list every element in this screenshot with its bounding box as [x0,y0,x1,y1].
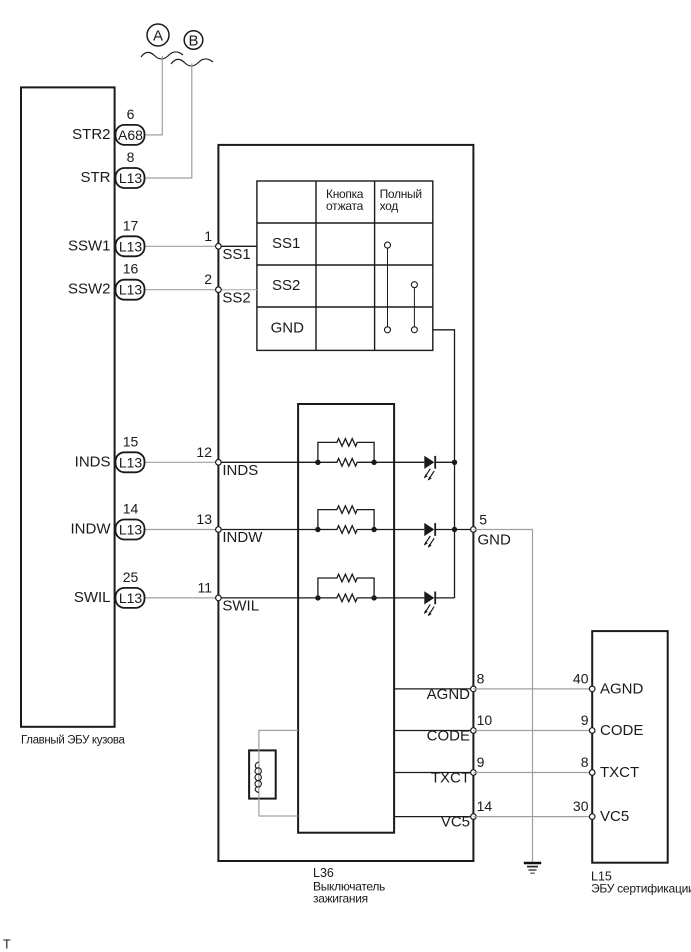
svg-text:15: 15 [123,433,139,449]
svg-text:INDW: INDW [222,529,263,546]
wire SSW1 to SS1 [145,245,219,247]
svg-text:17: 17 [123,217,139,233]
svg-text:14: 14 [123,501,139,517]
off-page connector B [184,31,203,50]
pin 17 SSW1 connector L13 [68,217,145,256]
svg-text:INDW: INDW [71,521,112,538]
svg-text:GND: GND [271,319,305,336]
pin 12 INDS [196,444,258,479]
svg-text:14: 14 [477,798,493,814]
svg-text:16: 16 [123,261,139,277]
pin 1 SS1 [204,228,251,263]
wire LED SWIL to bus [436,597,455,599]
node INDS right junction [371,460,376,465]
wire INDS [145,461,219,463]
svg-text:STR: STR [81,169,111,186]
svg-text:L13: L13 [119,590,143,606]
svg-text:зажигания: зажигания [313,892,368,906]
wire CODE internal [394,730,473,732]
pin 9 CODE (L15) [581,712,644,739]
switch contact GND left [385,327,391,333]
svg-text:ход: ход [380,199,399,213]
svg-text:SS1: SS1 [222,246,250,263]
svg-text:B: B [188,32,198,49]
pin 8 TXCT (L15) [581,754,639,781]
svg-text:L13: L13 [119,238,143,254]
LED INDS [424,456,435,481]
wire SWIL [145,597,219,599]
certification ECU block L15 [592,631,668,863]
svg-text:SWIL: SWIL [74,589,111,606]
svg-text:TXCT: TXCT [431,770,470,787]
wire SSW2 to SS2 [145,289,219,291]
break mark under B [171,59,213,66]
svg-text:11: 11 [197,579,212,595]
contact link SS1-GND [387,248,389,326]
lamp module box [298,404,394,833]
coil L (antenna) [255,750,261,798]
svg-text:9: 9 [581,712,589,728]
table header Полный ход [380,187,422,213]
svg-text:CODE: CODE [427,728,470,745]
svg-text:L13: L13 [119,454,143,470]
wire GND row to LED bus [433,330,455,598]
svg-text:Т: Т [3,937,11,951]
wire VC5 internal [394,816,473,818]
wire to LED INDW [374,529,424,531]
wire A68 to connector A [145,56,163,135]
LED INDW [424,523,435,548]
pin 6 STR2 connector A68 [72,106,144,145]
pin 16 SSW2 connector L13 [68,261,145,300]
ground [524,863,541,873]
pin 14 VC5 (L36) [441,798,493,831]
wire CODE harness [473,730,592,732]
wire L13(STR) to connector B [145,64,192,179]
pin 13 INDW [196,511,263,546]
pin 30 VC5 (L15) [573,798,629,825]
contact link SS2-GND [413,288,415,327]
svg-text:2: 2 [204,271,212,287]
svg-text:L13: L13 [119,282,143,298]
svg-text:5: 5 [479,511,487,527]
label L15 ЭБУ сертификации [591,870,691,896]
svg-text:12: 12 [196,444,212,460]
svg-text:SS2: SS2 [222,289,250,306]
node bus INDS [452,460,457,465]
wire INDW pin to resistors [218,529,318,531]
pin 15 INDS connector L13 [75,433,145,472]
svg-text:CODE: CODE [600,722,643,739]
svg-text:Главный ЭБУ кузова: Главный ЭБУ кузова [21,735,126,747]
node SWIL left junction [315,595,320,600]
node INDW right junction [371,527,376,532]
svg-text:8: 8 [127,149,135,165]
switch contact SS1 full-stroke [385,242,391,248]
wire coil bottom to lamp module [259,799,298,816]
svg-text:L13: L13 [119,522,143,538]
off-page connector A [147,24,169,46]
svg-text:SSW1: SSW1 [68,237,111,254]
node bus INDW [452,527,457,532]
wire INDS pin to resistors [218,461,318,463]
wire LED INDS to bus [436,461,455,463]
pin 40 AGND (L15) [573,670,644,697]
pin 11 SWIL [197,579,259,614]
svg-text:SSW2: SSW2 [68,281,111,298]
wire VC5 harness [473,816,592,818]
svg-text:8: 8 [477,670,485,686]
svg-text:25: 25 [123,569,139,585]
svg-text:L13: L13 [119,170,143,186]
switch state table [257,181,433,350]
svg-text:A: A [153,28,163,45]
LED SWIL [424,591,435,616]
svg-text:13: 13 [196,511,212,527]
svg-text:VC5: VC5 [600,808,629,825]
switch contact GND right [411,327,417,333]
svg-text:STR2: STR2 [72,126,110,143]
wire TXCT internal [394,772,473,774]
svg-text:30: 30 [573,798,589,814]
pin 10 CODE (L36) [427,712,493,745]
svg-text:6: 6 [127,106,135,122]
ECU block: Главный ЭБУ кузова [21,87,115,726]
wire SS1 pin to table [218,245,257,247]
table header Кнопка отжата [326,187,364,213]
svg-text:отжата: отжата [326,199,364,213]
pin 8 AGND (L36) [427,670,485,703]
resistor pair INDS [318,439,374,467]
label L36 Выключатель зажигания [313,866,385,906]
resistor pair INDW [318,506,374,533]
wire AGND harness [473,688,592,690]
wire to LED INDS [374,461,424,463]
node INDW left junction [315,527,320,532]
ignition switch block L36 [218,145,473,861]
svg-text:10: 10 [477,712,493,728]
node INDS left junction [315,460,320,465]
wire TXCT harness [473,772,592,774]
svg-text:9: 9 [477,754,485,770]
wire LED INDW to bus [436,529,455,531]
svg-text:INDS: INDS [75,453,111,470]
switch contact SS2 full-stroke [411,282,417,288]
wire GND to earth [473,530,532,862]
svg-text:1: 1 [204,228,212,244]
pin 5 GND [471,511,511,548]
svg-text:SS2: SS2 [272,277,300,294]
wire coil top to lamp module [259,730,298,750]
pin 2 SS2 [204,271,251,306]
svg-text:L36: L36 [313,866,334,880]
svg-text:SWIL: SWIL [222,598,259,615]
svg-text:40: 40 [573,670,589,686]
svg-text:A68: A68 [118,127,143,143]
svg-text:GND: GND [478,531,512,548]
svg-text:INDS: INDS [222,462,258,479]
svg-text:SS1: SS1 [272,235,300,252]
svg-text:AGND: AGND [427,686,471,703]
svg-text:8: 8 [581,754,589,770]
wire SWIL pin to resistors [218,597,318,599]
pin 8 STR connector L13 [81,149,145,188]
resistor pair SWIL [318,574,374,602]
svg-text:AGND: AGND [600,680,644,697]
wire INDW [145,529,219,531]
svg-text:ЭБУ сертификации: ЭБУ сертификации [591,881,691,895]
svg-text:TXCT: TXCT [600,764,639,781]
break mark under A [141,52,183,59]
pin 25 SWIL connector L13 [74,569,145,608]
wire SS2 pin to table [218,289,257,291]
svg-text:VC5: VC5 [441,814,470,831]
wire to LED SWIL [374,597,424,599]
pin 14 INDW connector L13 [71,501,145,540]
node SWIL right junction [371,595,376,600]
transponder coil box [249,750,276,798]
pin 9 TXCT (L36) [431,754,485,787]
wire AGND internal [394,688,473,690]
wire bus to GND pin 5 [455,529,474,531]
